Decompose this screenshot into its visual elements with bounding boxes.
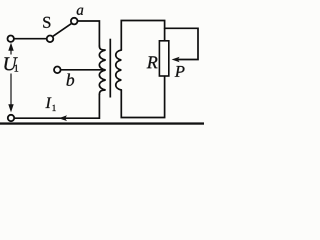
wire tap from contact b to primary coil	[61, 69, 105, 71]
switch S blade	[53, 23, 72, 36]
contact b	[54, 67, 61, 74]
arrow I1 current direction on bottom wire	[59, 115, 67, 121]
inductor primary winding L1 (4 bumps)	[99, 46, 105, 95]
wire bottom-left from primary coil bottom to lower terminal	[14, 95, 99, 119]
label b	[67, 74, 75, 86]
wire secondary loop bottom	[121, 76, 164, 118]
arrow U1 lower (points down at terminal)	[8, 104, 13, 112]
label R	[147, 56, 158, 68]
wire secondary loop top and right side down to resistor	[121, 21, 164, 51]
switch pivot contact	[47, 36, 54, 43]
bottom page rule	[0, 122, 204, 124]
arrow U1 upper (points up at terminal)	[8, 43, 13, 51]
inductor secondary winding L2 (4 bumps)	[116, 50, 122, 90]
terminal lower-left	[8, 115, 14, 121]
label U1 subscript	[15, 65, 19, 72]
resistor R body	[159, 41, 168, 76]
label a	[77, 8, 84, 15]
label S	[43, 17, 50, 28]
arrow P wiper head	[172, 57, 180, 63]
label U1	[4, 57, 17, 70]
wire from contact a to corner then down to primary coil top	[78, 21, 100, 46]
transformer core	[109, 39, 111, 98]
wire top-left horizontal from input terminal to switch pivot	[14, 38, 47, 40]
wire rheostat wiper link	[165, 28, 198, 59]
terminal upper-left	[8, 36, 14, 42]
label P	[175, 66, 185, 77]
label I1 subscript	[52, 105, 55, 111]
contact a	[71, 18, 78, 25]
label I1	[45, 98, 51, 109]
